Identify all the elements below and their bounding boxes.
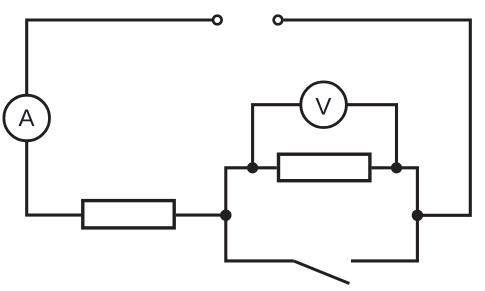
resistor R2 xyxy=(279,154,370,181)
node D1 (junction dot) xyxy=(247,162,258,173)
wire top-left run (battery terminal to ammeter top) xyxy=(27,20,212,96)
wire left branch of parallel section (down left side to switch) xyxy=(226,168,294,261)
terminal T2 (open circle, right) xyxy=(274,16,283,25)
svg-text:A: A xyxy=(18,105,34,132)
wire top-right run (terminal to right rail down to node D4) xyxy=(284,20,471,215)
node D2 (junction dot) xyxy=(391,162,402,173)
switch S1 (open lever) xyxy=(294,261,350,284)
voltmeter V xyxy=(301,82,347,128)
resistor R1 xyxy=(83,201,174,228)
wire voltmeter right lead xyxy=(347,105,396,166)
node D3 (junction dot) xyxy=(220,210,231,221)
wire ammeter bottom to resistor R1 xyxy=(27,140,82,215)
svg-text:V: V xyxy=(315,93,331,120)
ammeter A xyxy=(4,95,50,141)
wire voltmeter left lead xyxy=(253,105,300,166)
terminal T1 (open circle, left) xyxy=(213,16,222,25)
node D4 (junction dot) xyxy=(412,210,423,221)
wire R1 right lead to node D3 xyxy=(176,214,224,217)
wire right branch of parallel section (down right side to switch) xyxy=(351,168,417,261)
